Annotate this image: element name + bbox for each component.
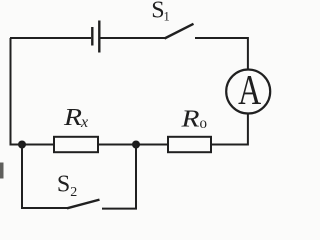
wire ammeter bottom to middle-right corner [211, 114, 248, 145]
svg-text:2: 2 [70, 185, 77, 200]
wire top-left horizontal (left corner to battery) [10, 37, 91, 39]
wire Rx to left junction [22, 144, 54, 146]
paper background [0, 0, 272, 214]
svg-text:1: 1 [164, 9, 170, 23]
svg-text:0: 0 [200, 117, 208, 131]
wire S2 contact along bottom and up to middle junction [102, 145, 136, 209]
wire S1 contact to top-right corner and down to ammeter [195, 38, 248, 69]
switch S2 blade [67, 200, 100, 209]
wire left junction to left edge and up left side [11, 38, 23, 145]
battery cell plate long (right) [98, 21, 100, 53]
svg-text:x: x [80, 114, 88, 131]
resistor Rx box [54, 137, 98, 152]
scan smudge left edge [0, 163, 4, 179]
wire S2 branch left vertical and bottom-left segment [22, 145, 68, 209]
junction node left (dot) [18, 141, 26, 149]
svg-text:A: A [238, 68, 261, 114]
wire R0 to middle junction [136, 144, 168, 146]
junction node middle (dot) [132, 141, 140, 149]
ammeter A circle [226, 70, 270, 114]
svg-text:S: S [57, 171, 70, 197]
battery cell plate short (left) [91, 27, 93, 46]
switch S1 blade [165, 24, 194, 39]
wire middle junction to Rx [98, 144, 136, 146]
svg-text:R: R [180, 106, 200, 132]
wire battery to switch S1 pivot [101, 37, 166, 39]
svg-text:R: R [63, 105, 83, 131]
resistor R0 box [168, 137, 211, 152]
ammeter letter A [238, 68, 261, 114]
